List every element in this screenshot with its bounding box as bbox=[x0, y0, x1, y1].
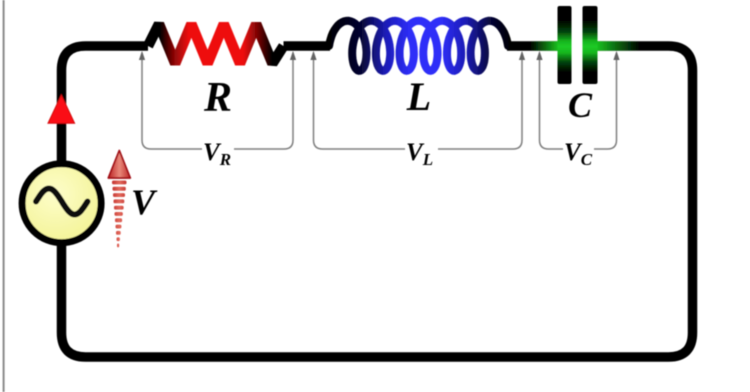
arrowhead VR right bbox=[290, 51, 296, 60]
dashed arrow shaft bbox=[112, 181, 127, 185]
svg-text:V: V bbox=[131, 182, 158, 222]
arrowhead VC right bbox=[613, 51, 619, 60]
wire main loop bbox=[62, 46, 693, 357]
arrowhead VR left bbox=[139, 51, 145, 60]
voltage bracket VR bbox=[142, 58, 293, 149]
dashed arrow head bbox=[108, 151, 130, 179]
wire green glow right of capacitor bbox=[597, 41, 640, 51]
arrowhead VL left bbox=[310, 51, 316, 60]
svg-text:C: C bbox=[568, 85, 593, 125]
inductor L bbox=[329, 21, 508, 71]
left page edge line bbox=[3, 0, 5, 392]
svg-text:R: R bbox=[203, 75, 232, 121]
current arrow on wire bbox=[48, 95, 75, 123]
wire green glow left of capacitor bbox=[530, 41, 558, 51]
arrowhead VC left bbox=[536, 51, 542, 60]
voltage bracket VC bbox=[540, 58, 617, 149]
resistor R bbox=[148, 24, 284, 64]
wire L-C segment bbox=[507, 41, 558, 51]
arrowhead VL right bbox=[519, 51, 525, 60]
capacitor C plate left bbox=[558, 6, 572, 84]
AC source sine wave bbox=[36, 189, 88, 215]
svg-text:L: L bbox=[406, 74, 431, 119]
voltage bracket VL bbox=[314, 58, 523, 149]
wire R-L segment bbox=[284, 41, 331, 51]
capacitor C plate right bbox=[583, 6, 598, 84]
AC source U1 circle bbox=[22, 164, 101, 243]
